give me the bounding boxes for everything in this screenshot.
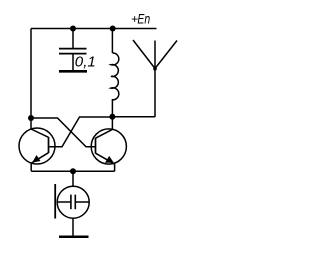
node dot top capacitor (70, 26, 76, 32)
transistor VT1 emitter line (31, 153, 48, 164)
wire VT1 emitter drop (30, 163, 32, 171)
transistor VT1 collector line (31, 129, 49, 137)
svg-text:En: En (137, 11, 150, 27)
microphone BM1 internal lead right (75, 201, 89, 203)
transistor VT2 emitter arrow (105, 156, 114, 163)
wire left vertical (30, 29, 32, 130)
node dot right collector (109, 114, 115, 120)
transistor VT2 circle (91, 129, 126, 164)
antenna WA1 left arm (133, 40, 155, 69)
transistor VT1 base bar (48, 137, 50, 153)
microphone BM1 membrane bar (54, 184, 56, 219)
wire top rail +En (31, 28, 157, 30)
svg-text:0,1: 0,1 (75, 54, 96, 70)
wire capacitor top lead (72, 29, 74, 49)
node dot emitter rail (70, 168, 76, 174)
node dot left collector (28, 115, 34, 121)
wire cross-couple B: VT1 base to right collector node (49, 117, 113, 147)
microphone BM1 circle (57, 186, 89, 218)
capacitor C1 plate bottom (59, 53, 87, 55)
transistor VT1 emitter arrow (32, 155, 41, 163)
wire bottom emitter rail (31, 170, 114, 172)
wire cross-couple A: left collector node to VT2 base (31, 118, 96, 147)
node dot top inductor (110, 26, 116, 32)
transistor VT1 circle (19, 128, 55, 164)
wire microphone bottom lead (72, 218, 74, 235)
antenna WA1 mast (154, 41, 156, 118)
wire capacitor bottom lead (72, 54, 74, 70)
transistor VT2 collector line (96, 129, 113, 138)
inductor L1 bottom lead (111, 99, 113, 117)
wire VT2 collector lead (111, 117, 113, 130)
transistor VT2 base bar (95, 138, 97, 154)
microphone BM1 internal plate left (70, 195, 72, 210)
node dot antenna vertex (153, 67, 157, 71)
wire microphone top lead (72, 171, 74, 186)
wire VT2 emitter drop (114, 164, 116, 171)
microphone BM1 internal plate right (74, 195, 76, 210)
capacitor C1 plate top (59, 48, 87, 50)
ground bar under capacitor (59, 70, 87, 73)
transistor VT2 emitter line (96, 153, 115, 164)
microphone BM1 internal lead left (58, 201, 71, 203)
wire right rail to antenna (112, 116, 155, 118)
ground bar bottom (59, 235, 89, 238)
inductor L1 top lead (111, 29, 113, 54)
inductor L1 coil (111, 53, 119, 100)
antenna WA1 right arm (155, 41, 177, 69)
